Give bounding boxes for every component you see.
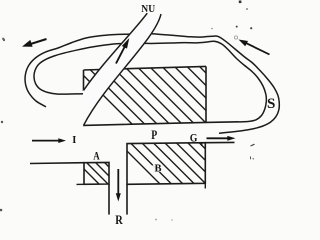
NU channel left line	[84, 13, 148, 90]
scan faint ring	[234, 36, 237, 39]
block B: hatched body	[116, 140, 247, 190]
svg-text:I: I	[72, 135, 76, 146]
block B: right-edge tail below bottom	[204, 183, 206, 188]
wire: loop outer line (top-left hook around to right S-curve tail)	[25, 34, 279, 133]
exit bottom wall: B top edge extended right	[205, 141, 234, 143]
wire: loop inner line (left curl, lower straight, right S-curve into channel wall)	[34, 41, 266, 122]
block A: bottom edge tail to the left	[77, 183, 85, 185]
R channel left wall	[108, 184, 110, 215]
R channel right wall	[126, 184, 128, 214]
central block P: hatched body	[68, 60, 281, 135]
svg-text:S: S	[267, 96, 275, 112]
scan speck left edge middle	[1, 121, 3, 123]
svg-text:P: P	[151, 129, 157, 142]
scan speck left edge upper	[3, 39, 5, 41]
scan faint speck	[211, 28, 213, 30]
scan mark right of B	[251, 144, 255, 146]
arrow at loop top-left (points down-left)	[29, 39, 47, 45]
block A: hatched body	[75, 160, 130, 188]
NU channel: white band overpaint	[84, 13, 162, 125]
block B: outline	[127, 143, 205, 185]
svg-text:G: G	[190, 131, 198, 144]
central block P: left edge (upper part, above NU channel mouth)	[83, 70, 85, 91]
channel top wall: block bottom edge extended right	[83, 122, 239, 126]
scan speck top-right corner	[239, 1, 242, 4]
small tick at left end of exit bottom wall	[201, 143, 203, 146]
block A: outline	[84, 162, 109, 184]
scan mark lower right	[251, 157, 254, 160]
G output arrow	[207, 137, 229, 139]
I input arrow	[32, 140, 59, 142]
label B (with light backing)	[152, 162, 162, 172]
svg-text:NU: NU	[141, 3, 155, 15]
svg-text:A: A	[93, 151, 100, 163]
svg-text:B: B	[155, 164, 162, 175]
NU channel right line	[84, 14, 161, 125]
R output arrow	[117, 169, 119, 194]
central block P: right edge	[205, 66, 207, 122]
arrow inside NU channel (points up-right)	[116, 47, 125, 64]
scan speck pair above arrow	[236, 26, 238, 28]
arrow at loop top-right (points up-left)	[246, 43, 270, 55]
central block P: top edge	[84, 66, 207, 70]
scan speck left bottom corner	[0, 209, 2, 212]
svg-text:R: R	[115, 213, 123, 226]
wall: A-line running left from block A top edge	[30, 162, 84, 165]
